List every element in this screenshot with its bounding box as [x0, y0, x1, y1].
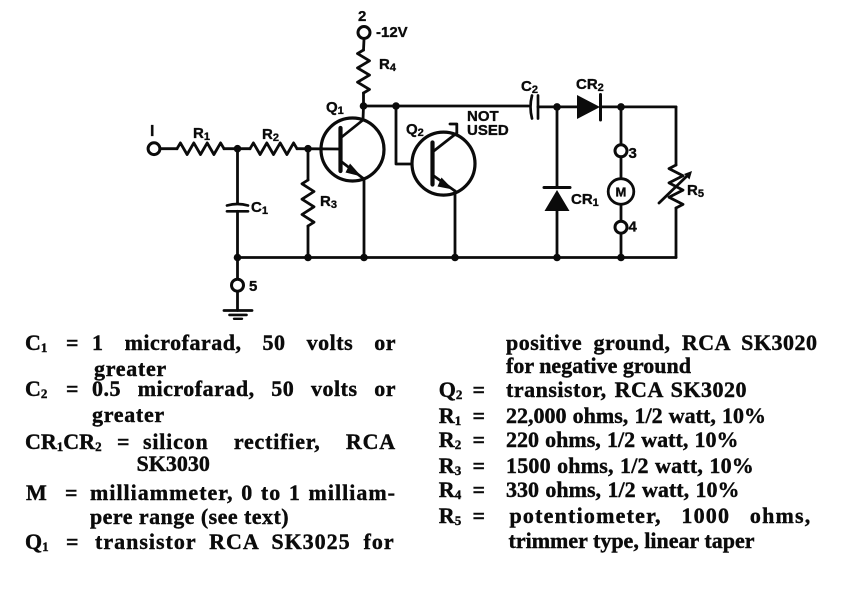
svg-text:R3: R3 [320, 193, 337, 211]
wire node B down to R3 [307, 149, 310, 180]
wire C2 to node C [538, 106, 577, 109]
wire bottom rail [238, 256, 677, 259]
wire R4 to top node [362, 93, 365, 106]
wire terminal 3 to meter [620, 158, 623, 178]
node junction meter-bottom [617, 254, 625, 262]
wire R5 to bottom rail [675, 208, 678, 258]
svg-text:3: 3 [629, 145, 637, 162]
wire Q1 emitter to bottom rail [363, 179, 366, 258]
svg-text:4: 4 [629, 219, 638, 236]
svg-text:C2: C2 [521, 78, 538, 96]
svg-text:CR2: CR2 [576, 76, 604, 94]
wire CR2 to node D [601, 106, 677, 109]
node top junction at Q1 collector [360, 102, 368, 110]
wire node D down to terminal 3 [620, 107, 623, 144]
parts list right column [506, 332, 818, 354]
capacitor C2 [531, 96, 533, 119]
svg-text:R5: R5 [687, 182, 704, 200]
wire terminal1 to R1 [161, 147, 178, 150]
svg-text:R1: R1 [193, 125, 210, 143]
node junction Q2 tap [392, 102, 400, 110]
wire meter to terminal 4 [620, 205, 623, 220]
svg-text:R4: R4 [379, 56, 397, 74]
diode CR1 [544, 188, 570, 212]
potentiometer R5 [659, 165, 692, 208]
node junction CR1-bottom [553, 254, 561, 262]
wire terminal 5 to ground [236, 293, 239, 311]
svg-text:R2: R2 [262, 126, 279, 144]
svg-text:-12V: -12V [376, 24, 408, 41]
svg-text:I: I [150, 123, 154, 140]
wire R1 to node A [224, 147, 250, 150]
svg-text:5: 5 [249, 278, 257, 295]
svg-text:USED: USED [467, 122, 509, 139]
node junction R3-bottom [304, 254, 312, 262]
wire Q2 emitter to bottom rail [454, 191, 457, 258]
wire top rail [364, 105, 529, 108]
wire Q2 collector stub [450, 124, 457, 133]
wire CR1 branch down [556, 107, 559, 188]
wire top rail to R5 [675, 107, 678, 165]
wire bottom rail to terminal 5 [236, 258, 239, 279]
terminal 2 [358, 27, 370, 39]
node junction Q2 emitter-bottom [451, 254, 459, 262]
wire CR1 to bottom rail [556, 211, 559, 258]
svg-text:2: 2 [358, 8, 366, 25]
transistor Q1 [321, 118, 384, 181]
svg-text:M: M [616, 184, 627, 199]
terminal 4 [615, 221, 627, 233]
wire C1 to bottom rail [236, 211, 239, 257]
terminal 3 [615, 145, 627, 157]
svg-text:Q1: Q1 [326, 99, 344, 117]
resistor R2 [250, 143, 297, 155]
terminal 1 [148, 143, 160, 155]
node C junction [553, 103, 561, 111]
node junction Q1 emitter-bottom [360, 254, 368, 262]
diode CR2 [577, 95, 601, 121]
parts list left column [25, 332, 47, 354]
resistor R1 [177, 143, 224, 155]
wire R2 to node B [297, 147, 340, 150]
wire Q2 base drop [396, 106, 412, 164]
wire terminal 2 to R4 [362, 40, 365, 51]
node A junction [234, 145, 242, 153]
resistor R3 [302, 180, 314, 226]
svg-text:CR1: CR1 [571, 191, 599, 209]
meter M [608, 179, 634, 205]
transistor Q2 [412, 132, 475, 195]
resistor R4 [358, 50, 370, 93]
svg-text:Q2: Q2 [406, 121, 424, 139]
wire terminal 4 to bottom rail [620, 235, 623, 258]
terminal 5 [232, 279, 244, 291]
wire Q1 collector up to top node [362, 106, 365, 120]
node B junction [304, 145, 312, 153]
node junction C1-bottom [234, 254, 242, 262]
svg-text:C1: C1 [251, 199, 268, 217]
node D junction [617, 103, 625, 111]
wire node A down to C1 [236, 149, 239, 204]
ground [224, 311, 252, 319]
capacitor C1 [227, 204, 248, 206]
wire R3 to bottom rail [307, 226, 310, 258]
